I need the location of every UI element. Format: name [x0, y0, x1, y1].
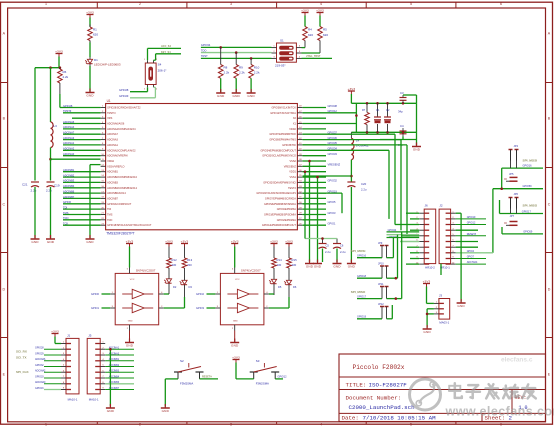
svg-text:TMS: TMS: [107, 214, 113, 217]
svg-text:TRST: TRST: [201, 54, 208, 58]
svg-text:TMS: TMS: [63, 211, 69, 215]
svg-text:MA03-1: MA03-1: [439, 321, 449, 325]
resistor R10: [249, 58, 260, 92]
svg-text:GND: GND: [231, 344, 239, 348]
svg-text:ADCINB1: ADCINB1: [63, 168, 75, 172]
svg-text:GPIO28: GPIO28: [35, 347, 44, 350]
svg-text:ADCINA2/COMP1A/AIO2: ADCINA2/COMP1A/AIO2: [107, 149, 136, 152]
ground (R9): [232, 89, 241, 98]
svg-text:JTAG_TRST: JTAG_TRST: [306, 55, 321, 58]
svg-text:GPIO0: GPIO0: [91, 292, 99, 296]
wire J6 feed rows: [387, 229, 420, 239]
wire jumper column risers: [387, 232, 402, 319]
svg-text:ADCINA3: ADCINA3: [63, 136, 75, 140]
label SCI_TX: [16, 355, 27, 359]
svg-text:JP9: JP9: [378, 242, 383, 245]
wire +3V3 to J1 pin1: [55, 337, 61, 344]
svg-text:C: C: [548, 202, 551, 206]
svg-text:ADCINB3: ADCINB3: [63, 179, 75, 183]
wire JP6 row: [500, 200, 544, 214]
wires J6 left nets: [395, 213, 419, 264]
svg-text:TCK: TCK: [63, 222, 68, 226]
svg-text:+3V3: +3V3: [423, 279, 431, 283]
svg-text:TEST2: TEST2: [288, 187, 296, 190]
svg-text:VSS1: VSS1: [289, 176, 296, 179]
svg-text:2.2u: 2.2u: [361, 188, 367, 192]
svg-text:ADCTA04: ADCTA04: [467, 261, 478, 264]
svg-text:2.2u: 2.2u: [46, 189, 52, 193]
svg-text:C4: C4: [400, 124, 404, 128]
svg-text:219-03*: 219-03*: [275, 64, 286, 68]
wire oscillator bottom rail: [351, 103, 416, 133]
wire S3 net GPIO12: [275, 376, 287, 379]
svg-text:ADCINA4: ADCINA4: [63, 125, 75, 129]
svg-text:GND: GND: [128, 321, 133, 323]
svg-text:+3V3: +3V3: [126, 239, 134, 243]
svg-text:RESET#: RESET#: [202, 376, 212, 379]
ground (S2): [161, 404, 170, 413]
svg-text:JP6: JP6: [514, 192, 519, 196]
svg-text:S4: S4: [158, 63, 162, 67]
svg-text:VSSA/VREFLO: VSSA/VREFLO: [107, 165, 124, 168]
svg-text:GPIO37/EPWM4B/TDO: GPIO37/EPWM4B/TDO: [269, 133, 296, 136]
svg-text:GND: GND: [47, 240, 55, 244]
svg-text:GPIO29: GPIO29: [119, 94, 129, 98]
svg-text:+3V3: +3V3: [55, 49, 63, 53]
ground (R10): [247, 89, 256, 98]
resistor R5: [318, 16, 329, 41]
svg-text:R15: R15: [292, 258, 298, 262]
ground (buffer 2): [125, 339, 134, 348]
svg-text:GND: GND: [457, 304, 465, 308]
svg-text:VCC: VCC: [235, 279, 240, 281]
resistor R8: [218, 47, 229, 92]
ground (C6): [333, 260, 342, 269]
LED D5: [269, 268, 282, 295]
svg-text:ADCINB6/AIO14: ADCINB6/AIO14: [107, 192, 126, 195]
svg-text:330: 330: [172, 263, 177, 267]
svg-text:GND: GND: [217, 94, 225, 98]
svg-text:KEY_S4: KEY_S4: [161, 51, 171, 54]
svg-text:S1: S1: [280, 39, 284, 43]
connector J6: [416, 204, 436, 270]
svg-text:GPIO33: GPIO33: [328, 152, 338, 156]
svg-text:GPIO32: GPIO32: [35, 364, 44, 367]
svg-text:5: 5: [410, 422, 412, 426]
svg-text:2.2k: 2.2k: [224, 71, 230, 75]
ground (R8): [216, 89, 225, 98]
svg-text:VDDA: VDDA: [107, 160, 114, 163]
svg-text:GPIO18: GPIO18: [357, 275, 367, 278]
svg-text:GPIO6: GPIO6: [63, 200, 71, 204]
label SPI_MOSI (JP4): [523, 159, 538, 168]
svg-text:GND: GND: [233, 94, 241, 98]
svg-text:U1: U1: [107, 99, 111, 103]
wire S2 to ground: [165, 379, 178, 407]
svg-text:GPIO28: GPIO28: [63, 104, 73, 108]
wire J6 column to ground: [440, 264, 442, 275]
resistor R12: [167, 247, 177, 269]
svg-text:GPIO3: GPIO3: [328, 211, 336, 215]
svg-text:ADCINB7: ADCINB7: [63, 195, 75, 199]
resistor R4: [303, 16, 314, 41]
power +3V3 (buffer 2): [126, 239, 134, 267]
jumper JP9: [378, 242, 389, 258]
wire buffer 2 ground stub: [129, 331, 131, 342]
power +3V3 (J3): [423, 279, 431, 286]
svg-text:ADCINA0: ADCINA0: [63, 152, 75, 156]
svg-text:ADCINA0: ADCINA0: [35, 381, 46, 384]
svg-text:1: 1: [45, 2, 47, 6]
svg-text:F3M2SMA: F3M2SMA: [180, 382, 193, 386]
power +3V3 (buffer 3): [231, 239, 239, 267]
svg-text:GPIO4: GPIO4: [467, 250, 475, 253]
svg-text:R12: R12: [172, 258, 178, 262]
resistor R13: [182, 247, 192, 269]
watermark logo elecfans: [410, 379, 441, 410]
wire buffer 3 outputs: [269, 294, 289, 308]
svg-text:GPIO28: GPIO28: [119, 88, 129, 92]
wire J2 pin1 to ground rail: [460, 213, 462, 301]
svg-text:VREGENZ: VREGENZ: [328, 163, 341, 167]
svg-text:Date:: Date:: [342, 415, 359, 422]
svg-text:2: 2: [139, 422, 141, 426]
svg-text:ADCINB2: ADCINB2: [63, 173, 75, 177]
svg-text:J6: J6: [425, 204, 429, 208]
svg-text:R4: R4: [308, 28, 312, 32]
ground (digital VSS b): [313, 260, 322, 269]
net labels U1 right: [328, 104, 341, 226]
svg-text:GND: GND: [31, 240, 39, 244]
svg-text:C19: C19: [54, 184, 60, 188]
svg-text:GND: GND: [423, 330, 431, 334]
svg-text:MA10-1: MA10-1: [89, 398, 99, 402]
svg-text:D: D: [2, 287, 5, 291]
wire S4 net KEY_S4: [154, 51, 182, 60]
wire X2 from U1: [303, 123, 357, 125]
svg-text:VSS2: VSS2: [289, 160, 296, 163]
switch S2: [174, 359, 204, 386]
wire osc right to ground: [416, 103, 418, 145]
svg-text:3: 3: [230, 422, 232, 426]
svg-text:5: 5: [410, 2, 412, 6]
wire caps to ground: [35, 187, 51, 238]
svg-text:VREGENZ: VREGENZ: [284, 165, 297, 168]
switch S1 DIP: [272, 39, 302, 68]
svg-text:ADCINB4/COMP2B/AIO12: ADCINB4/COMP2B/AIO12: [107, 187, 137, 190]
power +3V3 (analog rail): [55, 49, 63, 56]
svg-text:GPIO32: GPIO32: [328, 179, 338, 183]
svg-text:ADCINB4: ADCINB4: [63, 184, 75, 188]
switch S4: [144, 59, 167, 91]
capacitor C20: [347, 182, 366, 192]
svg-text:D2: D2: [173, 285, 177, 289]
LED D2: [164, 268, 177, 294]
svg-text:34p: 34p: [398, 110, 403, 114]
svg-text:GPIO7: GPIO7: [467, 256, 475, 259]
svg-text:ADCINA3: ADCINA3: [107, 139, 118, 142]
svg-text:+3V3: +3V3: [348, 87, 356, 91]
svg-text:ADCINB1: ADCINB1: [107, 171, 118, 174]
inductor L3: [51, 122, 58, 148]
wire buffer 3 ground stub: [234, 331, 236, 342]
capacitor C4: [380, 124, 417, 147]
svg-text:C21: C21: [22, 183, 28, 187]
switch S3: [250, 359, 280, 386]
svg-text:620: 620: [93, 33, 98, 37]
svg-text:GPIO12/TZ1/SCITXDA: GPIO12/TZ1/SCITXDA: [270, 112, 296, 115]
svg-text:GPIO29: GPIO29: [35, 352, 44, 355]
svg-text:GND: GND: [233, 321, 238, 323]
LED D1: [85, 57, 121, 67]
svg-text:R6: R6: [63, 70, 67, 74]
svg-text:GPIO3/EPWM2B/SPISOMIA: GPIO3/EPWM2B/SPISOMIA: [264, 214, 296, 217]
svg-text:GND: GND: [348, 265, 356, 269]
svg-text:GND: GND: [314, 265, 322, 269]
svg-text:JP5: JP5: [509, 172, 514, 176]
wire C20 to ground rail: [350, 187, 352, 262]
svg-text:R14: R14: [277, 258, 283, 262]
wire R5 to S1: [302, 41, 321, 54]
svg-text:TMS320F28027PT: TMS320F28027PT: [106, 232, 135, 236]
ground (digital VSS a): [305, 260, 314, 269]
resistor R15: [287, 247, 297, 269]
jumper JP7: [504, 214, 517, 225]
svg-text:GPIO28/SCIRXDA/SDAA/TZ2: GPIO28/SCIRXDA/SDAA/TZ2: [107, 107, 141, 110]
svg-text:R5: R5: [323, 28, 327, 32]
ground (C21): [31, 235, 40, 244]
capacitor C5: [319, 239, 331, 263]
wire JP7 row: [502, 227, 543, 234]
connector J5: [87, 334, 105, 402]
svg-text:R10: R10: [254, 66, 260, 70]
microcontroller U1 TMS320F28027: [101, 99, 303, 236]
power +3V3 (J1): [51, 329, 59, 336]
svg-text:ADCINA6: ADCINA6: [35, 358, 46, 361]
ground (C19): [46, 235, 55, 244]
svg-text:ADCINB3: ADCINB3: [107, 181, 118, 184]
svg-text:JP12: JP12: [378, 303, 384, 306]
svg-text:ADCINA2: ADCINA2: [35, 370, 46, 373]
svg-text:GND: GND: [247, 94, 255, 98]
wires J1 left nets: [35, 347, 61, 390]
svg-text:ADCINA1: ADCINA1: [63, 141, 75, 145]
svg-text:SCI_TX: SCI_TX: [16, 355, 27, 359]
svg-text:ADCINB2/COMP1B/AIO10: ADCINB2/COMP1B/AIO10: [107, 176, 137, 179]
svg-text:1: 1: [45, 422, 47, 426]
node junction analog rail: [49, 66, 61, 69]
power +3V3 (R12): [165, 239, 173, 246]
power +3V3 (R14): [270, 239, 278, 246]
svg-text:GPIO2: GPIO2: [196, 292, 204, 296]
svg-text:C: C: [2, 202, 5, 206]
svg-text:S2: S2: [180, 359, 184, 363]
svg-text:206-1*: 206-1*: [158, 69, 168, 73]
wire left rail 2: [50, 68, 52, 122]
wires J5 right nets: [105, 347, 134, 390]
connector J2: [439, 204, 456, 270]
ground (J5): [106, 404, 115, 413]
wire D1 to GND: [89, 66, 91, 92]
svg-text:GPIO5/EPWM3B/SPISIMOA: GPIO5/EPWM3B/SPISIMOA: [264, 203, 296, 206]
svg-text:620: 620: [323, 33, 328, 37]
label SPI_MISO (JP6): [522, 204, 538, 214]
jumper JP5: [504, 172, 517, 181]
capacitor C19: [46, 182, 60, 193]
svg-text:TITLE:: TITLE:: [346, 382, 367, 389]
svg-text:GPIO19: GPIO19: [467, 216, 476, 219]
svg-text:SPI_MOSI: SPI_MOSI: [351, 249, 366, 253]
svg-text:ADCINB6: ADCINB6: [63, 189, 75, 193]
wire bus GPIO verticals to headers: [303, 134, 408, 236]
svg-text:+3V3: +3V3: [301, 8, 309, 12]
svg-text:GPIO19/XCLKIN/SCIRXDA/ECAP1: GPIO19/XCLKIN/SCIRXDA/ECAP1: [256, 192, 296, 195]
svg-text:2.2u: 2.2u: [340, 250, 346, 254]
svg-text:R1: R1: [93, 28, 97, 32]
svg-text:VDD1: VDD1: [289, 171, 296, 174]
svg-text:GPIO7/EPWM4B/SCIRXDA: GPIO7/EPWM4B/SCIRXDA: [265, 197, 296, 200]
svg-text:GND: GND: [306, 265, 314, 269]
wire net GPIO18 (JP10): [357, 275, 382, 278]
svg-text:J1: J1: [67, 334, 71, 338]
power +3V3 (R13): [181, 239, 189, 246]
resistor R7: [362, 103, 369, 132]
svg-text:GPIO5: GPIO5: [328, 200, 336, 204]
connector J3: [434, 294, 450, 325]
svg-text:ADCINA4/COMP2A/AIO4: ADCINA4/COMP2A/AIO4: [107, 128, 136, 131]
svg-text:+3V3: +3V3: [232, 355, 240, 359]
wire S1 net ISO_TRST: [302, 55, 333, 58]
wire analog supply: [35, 57, 60, 68]
ground (LED): [86, 89, 95, 98]
svg-text:GPIO36/EPWM4A/TMS: GPIO36/EPWM4A/TMS: [269, 139, 296, 142]
svg-text:6: 6: [500, 2, 502, 6]
wire buffer 2 inputs: [91, 292, 110, 310]
svg-text:SCI_RX: SCI_RX: [16, 350, 27, 354]
svg-text:C2000_LaunchPad.sch: C2000_LaunchPad.sch: [349, 404, 415, 411]
wire net TRST: [201, 54, 272, 60]
svg-text:ADCINA1: ADCINA1: [107, 144, 118, 147]
svg-text:GPIO16: GPIO16: [35, 387, 44, 390]
svg-text:TDO: TDO: [107, 219, 112, 222]
wire net GPIO16 (JP9): [351, 249, 382, 258]
connector J1: [61, 334, 79, 402]
wires J3 nets to ground: [426, 309, 434, 328]
svg-text:JP11: JP11: [378, 283, 384, 286]
svg-text:GPIO38: GPIO38: [328, 104, 338, 108]
ground (oscillator): [412, 143, 421, 152]
svg-text:GPIO12: GPIO12: [278, 376, 288, 379]
buffer U2 SN74LVC2G07: [110, 268, 164, 331]
svg-text:www.elecfans.com: www.elecfans.com: [445, 404, 554, 418]
svg-text:SPI_MISO: SPI_MISO: [351, 290, 366, 294]
svg-text:TDI: TDI: [63, 205, 67, 209]
wire R4 to S1: [302, 41, 306, 48]
wires U1 right pin nets: [303, 108, 327, 226]
svg-text:ADCINA7: ADCINA7: [63, 131, 75, 135]
wire left rail 1: [34, 68, 36, 181]
svg-text:4: 4: [320, 422, 322, 426]
svg-text:JP10: JP10: [378, 263, 384, 266]
svg-text:GND: GND: [86, 240, 94, 244]
net labels U1 left: [63, 104, 75, 226]
svg-text:330: 330: [277, 263, 282, 267]
svg-text:ISO-F28027F: ISO-F28027F: [369, 382, 408, 389]
LED D3: [180, 268, 193, 297]
svg-text:Piccolo F2802x: Piccolo F2802x: [353, 364, 405, 371]
svg-text:SN74LVC2G07: SN74LVC2G07: [136, 269, 156, 273]
svg-text:+3V3: +3V3: [51, 329, 59, 333]
svg-text:D: D: [548, 287, 551, 291]
svg-text:330: 330: [187, 263, 192, 267]
wires U1 left pin nets: [63, 108, 101, 226]
svg-text:TDO: TDO: [201, 48, 206, 52]
svg-text:GPIO1/EPWM1B/COMP1OUT: GPIO1/EPWM1B/COMP1OUT: [262, 224, 297, 227]
svg-text:GPIO59: GPIO59: [523, 185, 533, 188]
svg-text:GPIO16: GPIO16: [357, 255, 367, 258]
title block: [339, 354, 546, 422]
svg-text:GPIO34/EPWM3B/COMP2OUT: GPIO34/EPWM3B/COMP2OUT: [260, 149, 296, 152]
svg-text:3: 3: [230, 2, 232, 6]
wire X1 from U1: [303, 112, 357, 114]
svg-text:VDD2: VDD2: [289, 128, 296, 131]
svg-text:S3: S3: [256, 359, 260, 363]
wire S4 net ACC_S4: [148, 45, 182, 60]
svg-text:GPIO4/EPWM3A: GPIO4/EPWM3A: [277, 208, 297, 211]
wire R6 to XRS row: [60, 94, 63, 108]
svg-text:+3V3: +3V3: [86, 10, 94, 14]
svg-text:GPIO12: GPIO12: [467, 222, 476, 225]
power +3V3 (R5): [316, 8, 324, 15]
svg-text:TDI: TDI: [107, 208, 111, 211]
LED D6: [284, 268, 297, 297]
svg-text:4: 4: [320, 2, 322, 6]
wire J5 to ground: [109, 348, 112, 407]
wire +3V3 to R1: [89, 18, 91, 27]
svg-text:Document Number:: Document Number:: [346, 395, 402, 402]
ground (J3): [423, 325, 432, 334]
svg-text:R8: R8: [224, 66, 228, 70]
svg-text:TRSTN: TRSTN: [107, 112, 116, 115]
svg-text:SPI_MOSI: SPI_MOSI: [523, 159, 538, 163]
svg-text:GPIO2/EPWM2A: GPIO2/EPWM2A: [277, 219, 297, 222]
svg-text:SPI_MISO: SPI_MISO: [523, 204, 538, 208]
svg-text:+3V3: +3V3: [270, 239, 278, 243]
wire +3V3 to S3: [236, 363, 254, 379]
svg-text:GPIO19: GPIO19: [357, 316, 367, 319]
wire VDD rail to caps: [304, 170, 337, 239]
svg-text:2.2u: 2.2u: [31, 189, 37, 193]
svg-text:+3V3: +3V3: [165, 239, 173, 243]
crystal Q2: [384, 103, 391, 132]
svg-text:+3V3: +3V3: [316, 8, 324, 12]
wire VSSA rail: [90, 165, 101, 238]
power +3V3 (R4): [301, 8, 309, 15]
svg-text:TDO: TDO: [63, 216, 68, 220]
capacitor C3: [398, 91, 417, 114]
svg-text:TRST#: TRST#: [63, 109, 72, 113]
wire net GPIO17 (JP11): [351, 290, 382, 299]
svg-text:GPIO1: GPIO1: [328, 222, 336, 226]
svg-text:GPIO17: GPIO17: [357, 295, 367, 298]
svg-text:MA10-1: MA10-1: [68, 398, 78, 402]
svg-text:HR10-1: HR10-1: [440, 265, 450, 269]
buffer U3 SN74LVC2G07: [215, 268, 269, 331]
svg-text:C6: C6: [340, 244, 344, 248]
capacitor C21: [22, 182, 39, 193]
wire JP4 row: [502, 161, 543, 189]
svg-text:620: 620: [308, 33, 313, 37]
